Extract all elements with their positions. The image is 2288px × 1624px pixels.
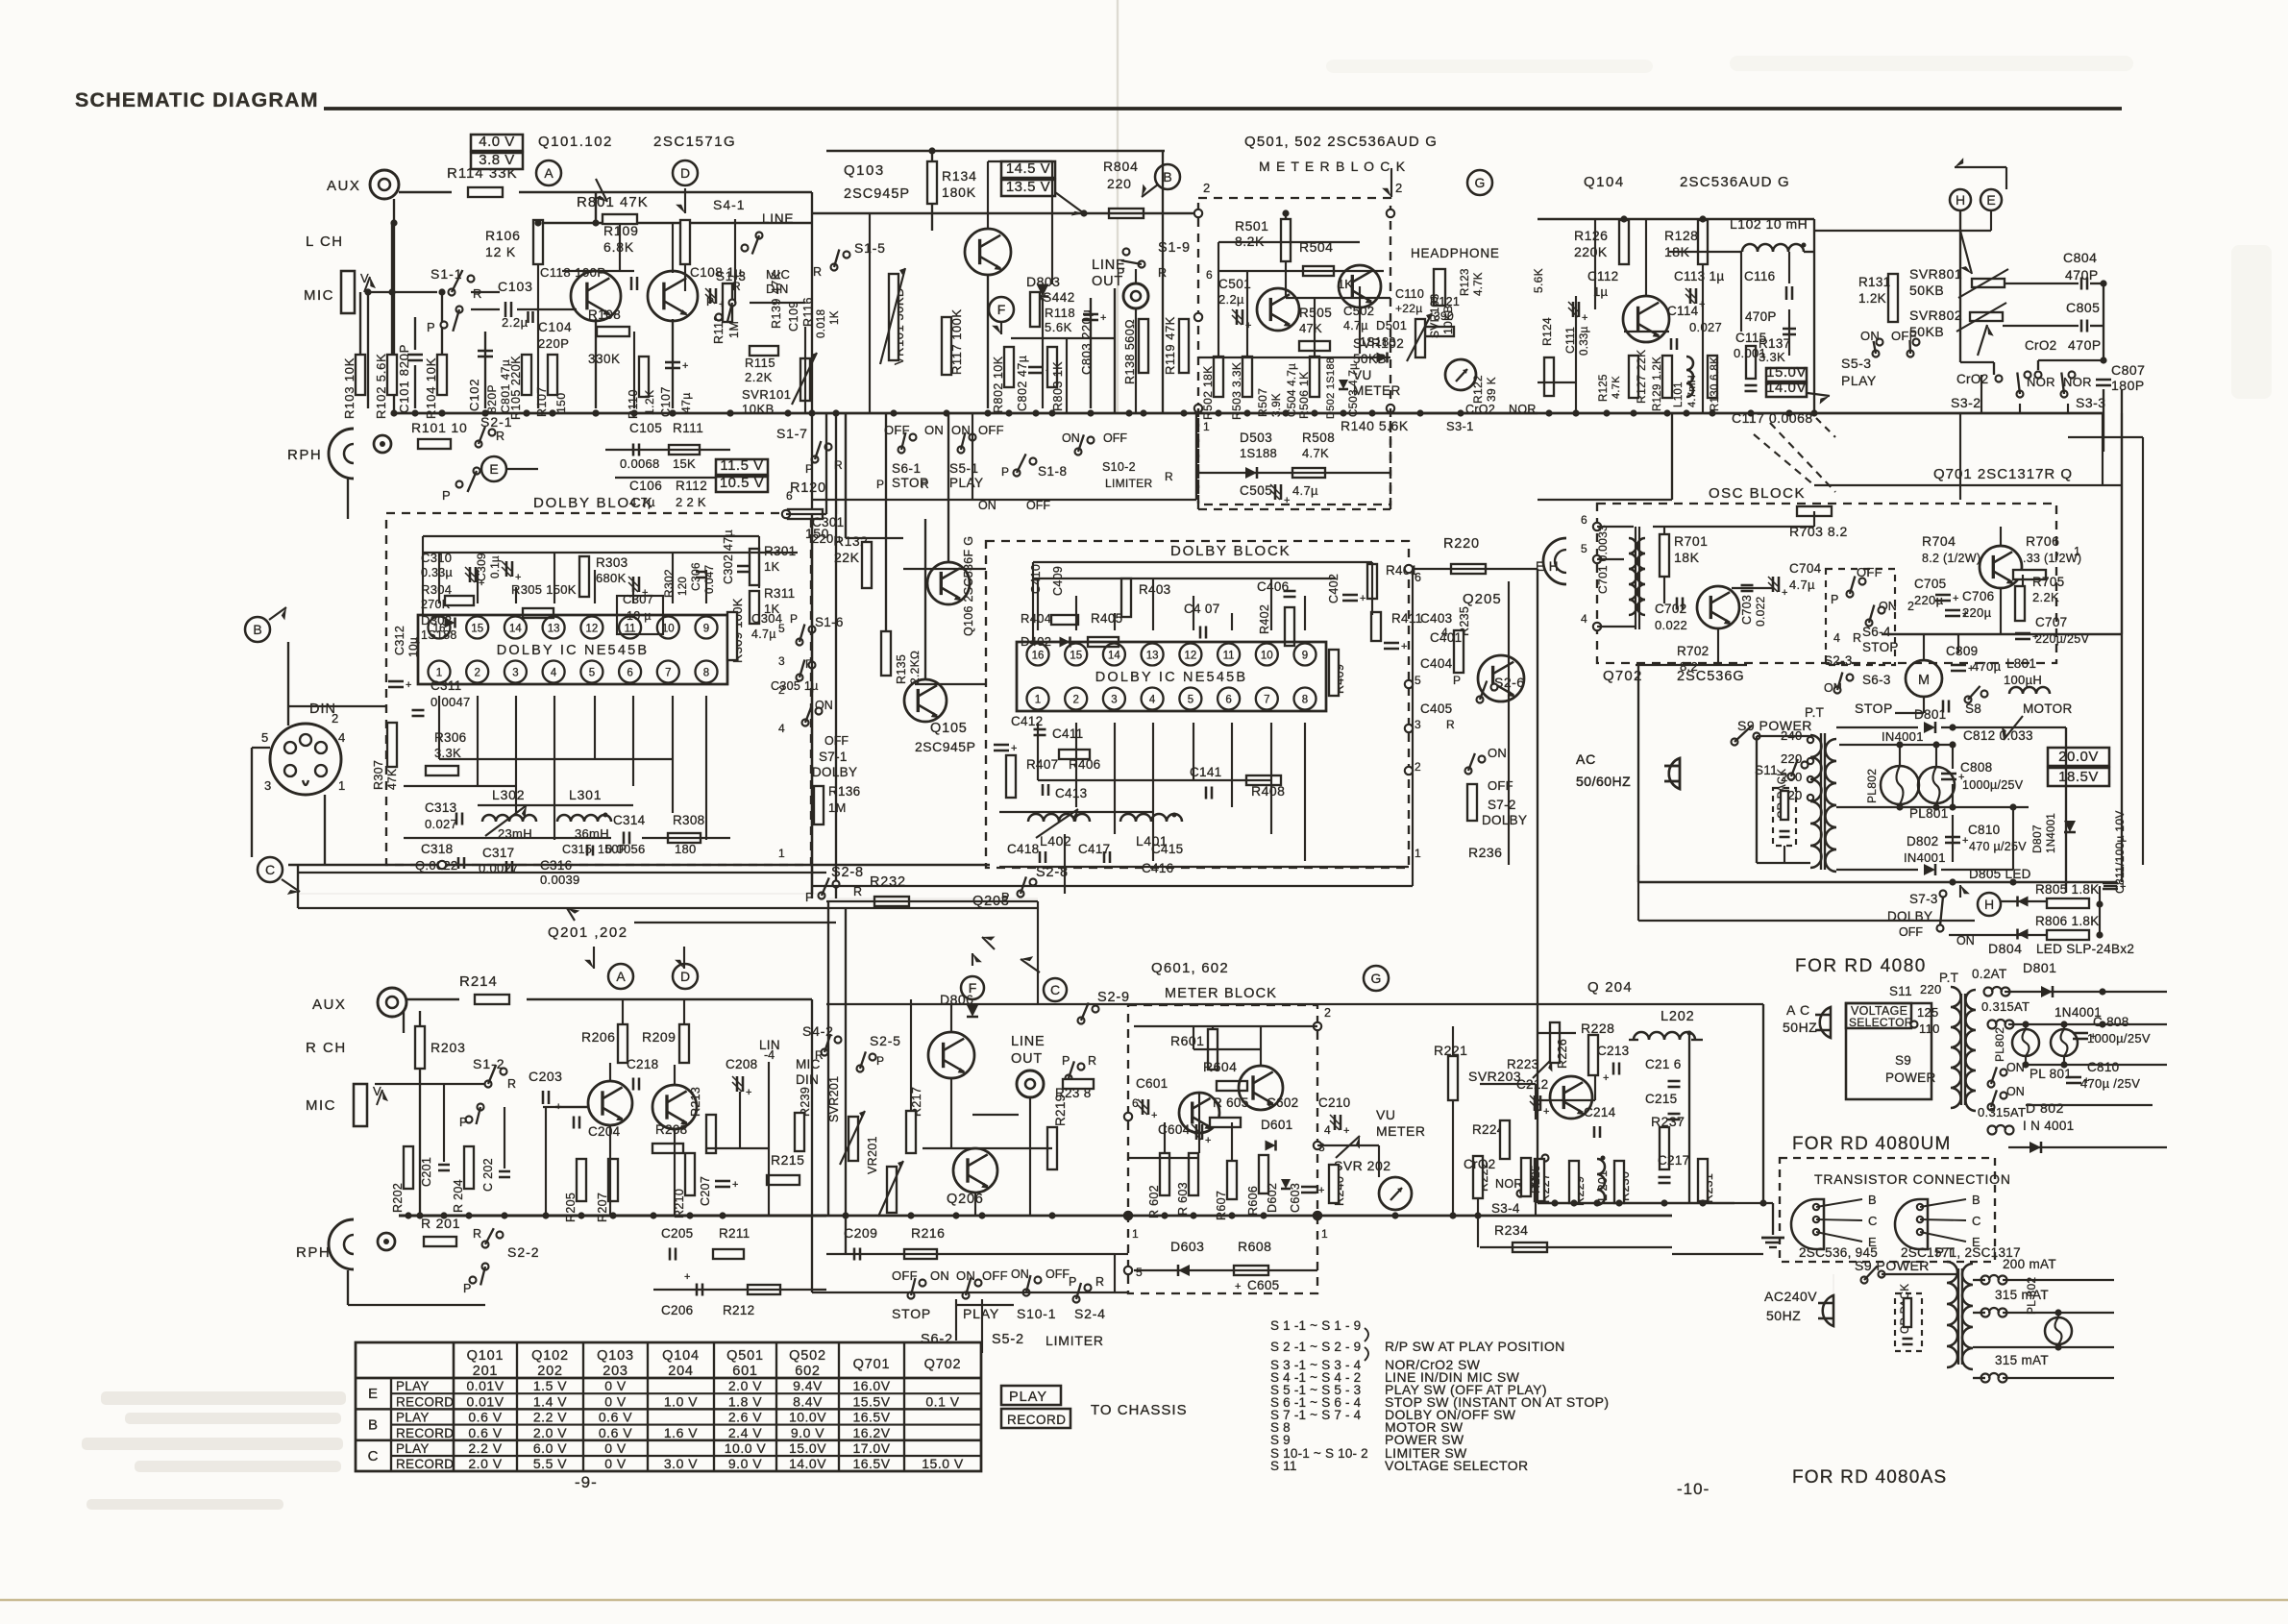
svg-text:TO CHASSIS: TO CHASSIS (1091, 1402, 1188, 1418)
svg-text:2SC945P: 2SC945P (844, 186, 910, 202)
svg-text:C115: C115 (1735, 331, 1766, 345)
svg-text:C418: C418 (1007, 842, 1039, 856)
svg-text:+: + (1582, 312, 1587, 324)
svg-text:C411: C411 (1052, 726, 1083, 741)
svg-text:S2-2: S2-2 (507, 1244, 540, 1260)
svg-text:315 mAT: 315 mAT (1995, 1353, 2049, 1367)
svg-text:R604: R604 (1203, 1059, 1237, 1074)
svg-text:C812 0.033: C812 0.033 (1963, 728, 2033, 743)
svg-text:120: 120 (677, 577, 689, 596)
svg-text:C4 07: C4 07 (1184, 602, 1220, 616)
svg-text:C318: C318 (421, 842, 453, 856)
svg-text:5.6K: 5.6K (1045, 320, 1072, 334)
svg-text:1.2K: 1.2K (1858, 291, 1886, 306)
svg-text:R129 1.2K: R129 1.2K (1652, 357, 1663, 411)
svg-text:R105 220K: R105 220K (509, 356, 523, 420)
svg-text:C404: C404 (1420, 656, 1453, 671)
svg-text:470 µ/25V: 470 µ/25V (1969, 840, 2027, 853)
svg-text:L302: L302 (492, 787, 525, 802)
svg-text:C215: C215 (1645, 1092, 1677, 1106)
svg-text:R138 560Ω: R138 560Ω (1123, 319, 1137, 384)
svg-text:39 K: 39 K (1485, 377, 1498, 402)
svg-text:C601: C601 (1136, 1076, 1168, 1091)
svg-text:P: P (459, 1116, 467, 1129)
svg-text:2.4 V: 2.4 V (728, 1425, 762, 1440)
svg-text:P: P (706, 295, 714, 308)
svg-text:C805: C805 (2066, 300, 2100, 315)
svg-text:OFF: OFF (1899, 925, 1923, 939)
svg-text:2.2K: 2.2K (745, 370, 773, 384)
svg-text:0.1µ: 0.1µ (490, 555, 502, 578)
svg-text:D502 1S188: D502 1S188 (1325, 357, 1337, 419)
svg-text:R220: R220 (1443, 536, 1480, 552)
svg-text:D805 LED: D805 LED (1969, 867, 2031, 881)
svg-text:R232: R232 (870, 874, 906, 890)
svg-text:2: 2 (1907, 600, 1914, 613)
svg-text:3: 3 (778, 654, 785, 668)
svg-text:R119 47K: R119 47K (1163, 316, 1177, 375)
svg-text:M E T E R B L O C K: M E T E R B L O C K (1259, 159, 1406, 174)
svg-text:OUT: OUT (1011, 1051, 1043, 1067)
svg-text:0.01V: 0.01V (466, 1378, 504, 1393)
svg-text:2SC1571G: 2SC1571G (653, 134, 736, 150)
svg-text:C201: C201 (420, 1157, 433, 1187)
svg-text:3.0 V: 3.0 V (664, 1456, 698, 1471)
svg-text:R123: R123 (1460, 268, 1471, 296)
svg-text:OFF: OFF (982, 1268, 1008, 1283)
svg-text:C: C (1050, 982, 1060, 997)
svg-text:R207: R207 (596, 1193, 609, 1222)
svg-text:4.7µ: 4.7µ (1789, 578, 1815, 592)
svg-text:+: + (2083, 1075, 2089, 1087)
svg-text:PL 802: PL 802 (2025, 1277, 2038, 1315)
svg-text:203: 203 (603, 1364, 628, 1379)
svg-text:R128: R128 (1664, 228, 1698, 243)
svg-text:SVR101: SVR101 (742, 387, 791, 402)
svg-text:S10-1: S10-1 (1017, 1306, 1056, 1321)
svg-text:R706: R706 (2026, 533, 2059, 549)
svg-text:S1-7: S1-7 (776, 426, 808, 441)
svg-text:P: P (1001, 465, 1009, 479)
svg-text:50HZ: 50HZ (1783, 1020, 1817, 1035)
svg-text:R203: R203 (431, 1040, 466, 1055)
svg-text:AC240V: AC240V (1764, 1289, 1817, 1304)
svg-text:R122: R122 (1471, 375, 1485, 404)
svg-text:L301: L301 (569, 787, 602, 802)
svg-text:G: G (1371, 971, 1382, 986)
svg-text:R601: R601 (1170, 1033, 1204, 1048)
svg-text:R106: R106 (485, 228, 521, 243)
svg-text:D801: D801 (2023, 960, 2056, 975)
svg-text:470µ: 470µ (1972, 659, 2002, 674)
svg-text:C109: C109 (787, 301, 800, 332)
svg-text:0.6 V: 0.6 V (468, 1425, 502, 1440)
svg-text:2: 2 (1415, 760, 1421, 774)
svg-text:R: R (1095, 1275, 1104, 1289)
svg-text:180P: 180P (2111, 378, 2145, 393)
svg-text:METER: METER (1376, 1123, 1426, 1139)
svg-text:0.022: 0.022 (1655, 618, 1687, 632)
svg-text:R705: R705 (2032, 575, 2064, 589)
svg-text:110: 110 (1919, 1021, 1940, 1036)
svg-text:S 9: S 9 (1270, 1433, 1291, 1447)
svg-text:C810: C810 (2087, 1060, 2119, 1074)
svg-text:R: R (1165, 470, 1173, 483)
svg-text:C206: C206 (661, 1303, 693, 1317)
svg-text:15.0 V: 15.0 V (922, 1456, 964, 1471)
svg-text:R136: R136 (828, 784, 860, 799)
svg-text:0 V: 0 V (604, 1456, 627, 1471)
svg-text:C707: C707 (2035, 615, 2067, 629)
svg-text:10.0 V: 10.0 V (725, 1440, 767, 1456)
svg-text:16.0V: 16.0V (852, 1378, 890, 1393)
svg-text:SELECTOR: SELECTOR (1849, 1016, 1913, 1029)
svg-text:R130 6.8K: R130 6.8K (1710, 357, 1721, 411)
svg-text:R: R (921, 478, 929, 491)
svg-text:OFF: OFF (1103, 431, 1127, 445)
svg-text:1: 1 (1035, 695, 1041, 706)
svg-text:P: P (876, 478, 884, 491)
svg-text:C417: C417 (1078, 842, 1110, 856)
svg-text:R 602: R 602 (1147, 1185, 1161, 1218)
svg-text:4.7K: 4.7K (1473, 272, 1485, 296)
svg-text:2SC536G: 2SC536G (1677, 669, 1745, 684)
svg-text:3: 3 (1111, 695, 1117, 706)
svg-text:C301: C301 (812, 515, 844, 529)
svg-text:201: 201 (473, 1364, 499, 1379)
svg-text:R407: R407 (1026, 757, 1058, 772)
svg-text:C111: C111 (1563, 327, 1577, 354)
svg-text:602: 602 (795, 1364, 821, 1379)
svg-text:5.6K: 5.6K (1532, 268, 1545, 293)
svg-text:202: 202 (537, 1364, 563, 1379)
svg-text:+: + (1235, 1281, 1241, 1292)
svg-text:C101 820P: C101 820P (397, 344, 411, 413)
svg-text:1.2K: 1.2K (643, 389, 656, 415)
svg-text:R205: R205 (564, 1193, 578, 1222)
svg-text:2.2 V: 2.2 V (533, 1410, 567, 1425)
svg-text:PLAY: PLAY (1009, 1390, 1047, 1405)
svg-text:R206: R206 (581, 1029, 615, 1045)
svg-text:0.33µ: 0.33µ (421, 566, 453, 579)
svg-text:P: P (876, 1054, 884, 1068)
svg-text:S 11: S 11 (1270, 1459, 1297, 1473)
svg-text:B: B (1868, 1193, 1877, 1207)
svg-text:R236: R236 (1468, 845, 1502, 860)
svg-text:ON: ON (1062, 431, 1080, 445)
svg-text:SVR801: SVR801 (1909, 266, 1962, 282)
svg-text:R: R (1088, 1054, 1096, 1068)
svg-text:P.T: P.T (1935, 1245, 1955, 1260)
svg-text:1000µ/25V: 1000µ/25V (1962, 778, 2024, 792)
svg-text:4: 4 (778, 722, 785, 735)
svg-text:Q601, 602: Q601, 602 (1151, 960, 1229, 976)
svg-text:C810: C810 (1968, 823, 2000, 837)
svg-text:R702: R702 (1677, 644, 1709, 658)
svg-text:2: 2 (474, 668, 480, 679)
svg-text:1: 1 (436, 668, 442, 679)
svg-text:C405: C405 (1420, 701, 1452, 716)
svg-text:+: + (1100, 312, 1106, 324)
svg-text:2.2K: 2.2K (2032, 590, 2059, 604)
svg-text:12: 12 (1185, 651, 1197, 662)
svg-text:Q701: Q701 (853, 1357, 891, 1372)
svg-text:C307: C307 (623, 592, 653, 606)
svg-text:1: 1 (1132, 1227, 1139, 1241)
svg-text:STOP: STOP (1855, 701, 1893, 716)
svg-text:2.6 V: 2.6 V (728, 1410, 762, 1425)
svg-text:B: B (1972, 1193, 1980, 1207)
svg-text:9: 9 (703, 624, 709, 635)
svg-text:C217: C217 (1658, 1153, 1689, 1168)
svg-text:C117 0.0068: C117 0.0068 (1732, 410, 1813, 426)
svg-text:DOLBY IC NE545B: DOLBY IC NE545B (497, 643, 649, 658)
svg-text:220µ: 220µ (812, 531, 842, 546)
svg-text:14: 14 (509, 624, 522, 635)
svg-text:R CH: R CH (306, 1040, 347, 1056)
svg-text:0.0068: 0.0068 (620, 456, 660, 471)
svg-text:R806 1.8K: R806 1.8K (2035, 914, 2100, 928)
svg-text:16: 16 (1032, 651, 1045, 662)
svg-text:C203: C203 (529, 1069, 562, 1084)
svg-text:2 2 K: 2 2 K (676, 495, 706, 509)
svg-text:VU: VU (1353, 368, 1372, 382)
svg-text:C214: C214 (1584, 1105, 1616, 1120)
svg-text:R804: R804 (1103, 159, 1139, 174)
svg-text:MIC: MIC (304, 287, 334, 304)
svg-text:S6-1: S6-1 (892, 461, 922, 476)
svg-text:2: 2 (1324, 1006, 1331, 1020)
svg-text:R402: R402 (1258, 604, 1271, 634)
svg-text:PLAY: PLAY (396, 1411, 430, 1425)
svg-text:L CH: L CH (306, 234, 344, 250)
svg-text:E: E (1986, 192, 1995, 208)
svg-text:C110: C110 (1395, 287, 1424, 301)
svg-text:R/P SW AT PLAY POSITION: R/P SW AT PLAY POSITION (1385, 1339, 1565, 1354)
svg-text:H: H (1956, 192, 1965, 208)
svg-text:4.0 V: 4.0 V (479, 134, 515, 150)
svg-text:+: + (2120, 881, 2126, 893)
svg-text:LIMITER: LIMITER (1046, 1333, 1104, 1348)
svg-text:Q701 2SC1317R Q: Q701 2SC1317R Q (1933, 466, 2073, 482)
svg-text:6.0 V: 6.0 V (533, 1440, 567, 1456)
svg-text:C416: C416 (1142, 861, 1173, 875)
svg-text:4.7µ: 4.7µ (1343, 319, 1368, 332)
svg-text:2.2 V: 2.2 V (468, 1440, 502, 1456)
svg-text:16: 16 (433, 624, 446, 635)
svg-text:220: 220 (1920, 982, 1942, 997)
svg-text:B: B (253, 622, 261, 637)
svg-text:C 808: C 808 (2093, 1015, 2129, 1029)
svg-text:SVR 202: SVR 202 (1334, 1158, 1391, 1173)
svg-text:C204: C204 (588, 1124, 621, 1139)
svg-text:1000µ/25V: 1000µ/25V (2087, 1031, 2151, 1046)
svg-text:R134: R134 (942, 168, 977, 184)
svg-text:15: 15 (1070, 651, 1082, 662)
svg-text:2.0 V: 2.0 V (728, 1378, 762, 1393)
svg-text:R216: R216 (911, 1225, 945, 1241)
svg-text:C312: C312 (393, 626, 406, 655)
svg-text:0.315AT: 0.315AT (1978, 1105, 2026, 1120)
svg-text:L102 10 mH: L102 10 mH (1730, 216, 1808, 232)
svg-text:C604: C604 (1158, 1122, 1191, 1137)
svg-text:R: R (853, 885, 862, 898)
svg-text:6: 6 (786, 489, 793, 503)
svg-text:2SC945P: 2SC945P (915, 739, 975, 754)
svg-text:C208: C208 (726, 1057, 757, 1071)
svg-text:0.6 V: 0.6 V (599, 1425, 632, 1440)
svg-text:METER BLOCK: METER BLOCK (1165, 986, 1277, 1001)
svg-text:R223: R223 (1507, 1057, 1538, 1071)
svg-text:VOLTAGE SELECTOR: VOLTAGE SELECTOR (1385, 1458, 1529, 1473)
svg-text:10.0V: 10.0V (789, 1410, 826, 1425)
svg-text:3: 3 (264, 778, 271, 793)
svg-text:RECORD: RECORD (396, 1457, 454, 1471)
svg-text:R125: R125 (1598, 374, 1610, 402)
svg-text:14.0V: 14.0V (789, 1456, 826, 1471)
svg-text:HEADPHONE: HEADPHONE (1411, 246, 1500, 260)
svg-text:4.7mH: 4.7mH (1686, 375, 1698, 407)
svg-text:H: H (1984, 897, 1994, 912)
svg-text:DOLBY: DOLBY (812, 765, 857, 779)
svg-text:3.8 V: 3.8 V (479, 152, 515, 168)
svg-text:ON: ON (2006, 1085, 2025, 1098)
svg-text:1S188: 1S188 (1240, 446, 1277, 460)
svg-text:DOLBY: DOLBY (1887, 909, 1932, 923)
svg-text:18.5V: 18.5V (2058, 769, 2099, 785)
svg-text:Q104: Q104 (662, 1348, 700, 1364)
svg-text:15.0V: 15.0V (789, 1440, 826, 1456)
svg-text:+: + (406, 679, 411, 691)
svg-text:LINE: LINE (762, 211, 794, 226)
svg-text:OFF: OFF (824, 734, 849, 748)
svg-text:S9: S9 (1895, 1053, 1911, 1068)
svg-text:F: F (997, 302, 1006, 317)
svg-text:ON: ON (951, 423, 971, 437)
svg-text:IN4001: IN4001 (1882, 729, 1924, 744)
svg-text:R701: R701 (1674, 533, 1708, 549)
svg-text:R: R (732, 280, 741, 293)
svg-text:1.5 V: 1.5 V (533, 1378, 567, 1393)
svg-text:18K: 18K (1674, 550, 1700, 565)
svg-text:P: P (427, 320, 435, 334)
svg-text:R304: R304 (421, 582, 452, 597)
svg-text:C311: C311 (431, 678, 461, 693)
svg-text:ON: ON (924, 423, 944, 437)
svg-text:220: 220 (1107, 176, 1132, 191)
svg-text:470P: 470P (2068, 337, 2102, 353)
svg-text:4: 4 (1324, 1123, 1331, 1137)
svg-text:1: 1 (2074, 545, 2080, 558)
svg-text:FOR RD 4080UM: FOR RD 4080UM (1792, 1134, 1952, 1154)
svg-text:R311: R311 (764, 586, 795, 601)
svg-text:SVR802: SVR802 (1909, 308, 1962, 323)
svg-text:+: + (1360, 593, 1365, 604)
svg-text:10.5 V: 10.5 V (720, 475, 764, 491)
svg-text:ON: ON (930, 1268, 949, 1283)
svg-text:5: 5 (261, 730, 268, 745)
svg-text:330K: 330K (588, 352, 621, 366)
svg-text:C106: C106 (629, 479, 662, 493)
svg-text:10KB: 10KB (1441, 305, 1455, 334)
svg-text:Q501, 502 2SC536AUD G: Q501, 502 2SC536AUD G (1244, 134, 1438, 150)
svg-text:C114: C114 (1667, 304, 1699, 318)
svg-text:+: + (1962, 835, 1968, 847)
svg-text:Q103: Q103 (844, 162, 885, 179)
svg-text:7: 7 (665, 668, 671, 679)
svg-text:4: 4 (1581, 612, 1587, 626)
svg-text:R: R (1853, 631, 1861, 645)
svg-text:+: + (1151, 1110, 1157, 1121)
svg-text:1: 1 (1415, 847, 1421, 860)
svg-text:C804: C804 (2063, 250, 2097, 265)
svg-text:+: + (1968, 663, 1974, 675)
svg-text:D: D (680, 165, 690, 181)
svg-text:1: 1 (1203, 420, 1210, 433)
svg-text:315 mAT: 315 mAT (1995, 1288, 2049, 1302)
svg-text:S2-8: S2-8 (831, 865, 864, 880)
svg-text:1M: 1M (727, 321, 741, 338)
svg-text:C: C (1972, 1214, 1980, 1228)
svg-text:S10-2: S10-2 (1102, 460, 1136, 474)
svg-text:2: 2 (1395, 181, 1402, 195)
svg-text:D602: D602 (1266, 1183, 1279, 1213)
svg-text:C: C (265, 862, 275, 877)
svg-text:15.5V: 15.5V (852, 1393, 890, 1409)
svg-text:47K: 47K (385, 769, 399, 790)
svg-text:LIMITER: LIMITER (1105, 477, 1152, 490)
svg-text:D: D (680, 969, 690, 984)
svg-text:2.0 V: 2.0 V (533, 1425, 567, 1440)
svg-text:C: C (368, 1448, 379, 1464)
svg-text:R501: R501 (1235, 218, 1268, 234)
svg-text:R228: R228 (1581, 1021, 1614, 1036)
svg-text:P.T: P.T (1939, 971, 1958, 985)
svg-text:ON: ON (1488, 746, 1507, 760)
svg-text:TRANSISTOR CONNECTION: TRANSISTOR CONNECTION (1814, 1171, 2011, 1187)
svg-text:C102: C102 (467, 379, 481, 411)
svg-text:9.0 V: 9.0 V (791, 1425, 824, 1440)
svg-text:OSC BLOCK: OSC BLOCK (1709, 485, 1806, 502)
svg-text:6: 6 (1206, 268, 1213, 282)
svg-text:+: + (1953, 593, 1958, 604)
svg-text:R308: R308 (673, 813, 704, 827)
svg-text:220K: 220K (1574, 244, 1608, 259)
svg-text:50/60HZ: 50/60HZ (1576, 774, 1631, 789)
svg-text:470P: 470P (1745, 309, 1777, 324)
svg-text:NOR: NOR (1495, 1177, 1523, 1191)
svg-text:D803: D803 (1026, 274, 1060, 289)
svg-text:D 802: D 802 (2026, 1100, 2064, 1116)
svg-text:R109: R109 (603, 223, 639, 238)
svg-text:5: 5 (1415, 674, 1421, 687)
svg-text:C116: C116 (1744, 269, 1775, 283)
svg-text:R305 150K: R305 150K (511, 582, 577, 597)
svg-text:C212: C212 (1516, 1077, 1548, 1092)
svg-text:C118 100P: C118 100P (540, 265, 606, 280)
svg-text:S6-3: S6-3 (1862, 673, 1891, 687)
svg-text:D603: D603 (1170, 1239, 1204, 1254)
svg-text:1K: 1K (764, 559, 780, 574)
svg-text:L202: L202 (1661, 1009, 1694, 1024)
svg-text:3: 3 (1415, 718, 1421, 731)
svg-text:R704: R704 (1922, 533, 1956, 549)
svg-text:+: + (1543, 1106, 1549, 1118)
svg-text:C802 47µ: C802 47µ (1016, 356, 1029, 411)
svg-text:R502 18K: R502 18K (1201, 365, 1215, 420)
svg-text:R: R (1446, 718, 1455, 731)
svg-text:R214: R214 (459, 973, 498, 990)
